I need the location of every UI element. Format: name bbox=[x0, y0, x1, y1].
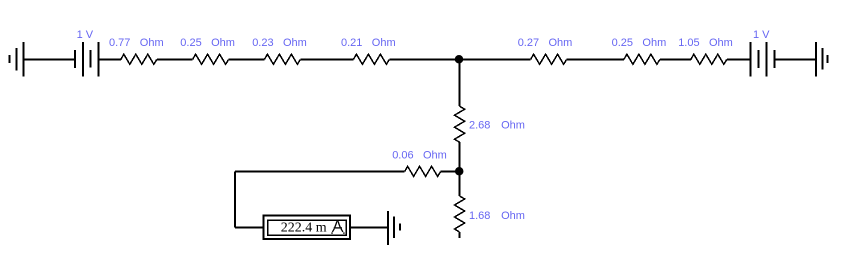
svg-text:Ohm: Ohm bbox=[283, 37, 307, 49]
node B (junction dot) bbox=[455, 167, 464, 176]
wire R4 to node A bbox=[389, 59, 459, 61]
svg-text:Ohm: Ohm bbox=[211, 37, 235, 49]
wire corner down bbox=[234, 172, 236, 228]
wire corner to ammeter M1 bbox=[235, 227, 263, 229]
resistor R6 0.25 Ohm bbox=[624, 54, 660, 64]
svg-text:1.68: 1.68 bbox=[469, 210, 490, 222]
svg-text:Ohm: Ohm bbox=[549, 37, 573, 49]
svg-text:Ohm: Ohm bbox=[501, 120, 525, 132]
ground (far left) bbox=[10, 42, 24, 77]
node A (junction dot) bbox=[455, 55, 464, 64]
svg-text:Ohm: Ohm bbox=[642, 37, 666, 49]
wire ground-left to battery B1 bbox=[24, 59, 76, 61]
ground (far right) bbox=[816, 42, 828, 77]
resistor R4 0.21 Ohm bbox=[353, 54, 389, 64]
wire node B down to R10 bbox=[459, 172, 461, 196]
resistor R5 0.27 Ohm bbox=[531, 54, 567, 64]
wire battery B2 to ground-right bbox=[774, 59, 816, 61]
svg-text:2.68: 2.68 bbox=[469, 120, 490, 132]
svg-text:1 V: 1 V bbox=[753, 29, 770, 41]
wire R6 to R7 bbox=[660, 59, 691, 61]
resistor R7 1.05 Ohm bbox=[691, 54, 727, 64]
wire R9 left to corner bbox=[235, 171, 404, 173]
svg-text:Ohm: Ohm bbox=[501, 210, 525, 222]
wire R1 to R2 bbox=[157, 59, 193, 61]
svg-text:Ohm: Ohm bbox=[423, 149, 447, 161]
battery B2 (1 V, right) bbox=[751, 42, 775, 77]
svg-text:0.25: 0.25 bbox=[612, 37, 633, 49]
resistor R9 0.06 Ohm bbox=[405, 166, 441, 176]
resistor R8 2.68 Ohm (vertical) bbox=[455, 106, 465, 142]
wire ammeter M1 to ground bbox=[351, 227, 388, 229]
ammeter M1 inner display bezel bbox=[268, 220, 346, 235]
wire open stub below R10 bbox=[459, 232, 461, 238]
resistor R3 0.23 Ohm bbox=[264, 54, 300, 64]
resistor R2 0.25 Ohm bbox=[193, 54, 229, 64]
wire node A to R5 bbox=[459, 59, 531, 61]
svg-text:1 V: 1 V bbox=[77, 29, 94, 41]
wire R8 to node B bbox=[459, 142, 461, 171]
svg-text:0.77: 0.77 bbox=[109, 37, 130, 49]
svg-text:0.06: 0.06 bbox=[392, 149, 413, 161]
wire node A down to R8 bbox=[459, 60, 461, 107]
resistor R1 0.77 Ohm bbox=[121, 54, 157, 64]
svg-text:1.05: 1.05 bbox=[678, 37, 699, 49]
ground (at ammeter) bbox=[388, 211, 400, 245]
svg-text:222.4 m: 222.4 m bbox=[281, 221, 327, 236]
wire R7 to battery B2 bbox=[727, 59, 751, 61]
svg-text:Ohm: Ohm bbox=[140, 37, 164, 49]
wire battery B1 to R1 bbox=[99, 59, 121, 61]
svg-text:0.25: 0.25 bbox=[180, 37, 201, 49]
wire R5 to R6 bbox=[567, 59, 624, 61]
ammeter M1 unit glyph A bbox=[331, 221, 344, 234]
svg-text:Ohm: Ohm bbox=[709, 37, 733, 49]
wire R2 to R3 bbox=[229, 59, 265, 61]
resistor R10 1.68 Ohm (vertical) bbox=[455, 196, 465, 232]
svg-text:Ohm: Ohm bbox=[372, 37, 396, 49]
battery B1 (1 V, left) bbox=[75, 42, 99, 77]
svg-text:0.21: 0.21 bbox=[341, 37, 362, 49]
ammeter M1 outer case bbox=[264, 216, 351, 240]
svg-text:0.27: 0.27 bbox=[518, 37, 539, 49]
wire R3 to R4 bbox=[300, 59, 353, 61]
wire R9 to node B bbox=[441, 171, 460, 173]
svg-text:0.23: 0.23 bbox=[252, 37, 273, 49]
